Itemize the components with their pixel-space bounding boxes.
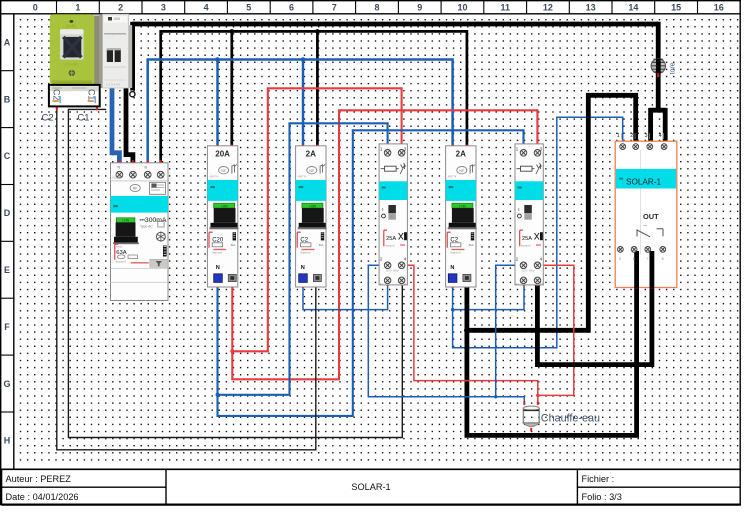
circuit breaker D1 20A bbox=[207, 146, 238, 287]
junction blue 20A branch bbox=[216, 393, 220, 397]
water heater chauffe-eau bbox=[523, 406, 539, 426]
svg-text:A1: A1 bbox=[516, 282, 520, 286]
wire red KM1 pin4 to chauffe-eau bbox=[402, 265, 538, 404]
relay contact symbol bbox=[637, 229, 663, 237]
svg-text:11: 11 bbox=[500, 3, 510, 13]
wire phase distribution rail bbox=[161, 31, 467, 163]
junction neutral/20A bbox=[215, 57, 220, 62]
wire thick phase drop through tore to SOLAR-1 inputs 3/4 bbox=[649, 22, 666, 147]
contactor KM2 25A bbox=[515, 144, 544, 286]
wire blue KM1 pin2 to chauffe-eau bbox=[368, 265, 524, 404]
junction phase/20A bbox=[230, 29, 235, 34]
svg-text:A2: A2 bbox=[404, 282, 408, 286]
svg-text:I: I bbox=[518, 207, 519, 212]
svg-text:legrand: legrand bbox=[300, 251, 310, 255]
svg-text:D: D bbox=[4, 208, 11, 218]
svg-text:Fichier :: Fichier : bbox=[582, 474, 615, 484]
svg-text:5: 5 bbox=[619, 257, 621, 261]
svg-text:25A: 25A bbox=[386, 236, 396, 242]
svg-text:14: 14 bbox=[628, 3, 638, 13]
main breaker DB bbox=[99, 14, 132, 88]
svg-text:2: 2 bbox=[118, 3, 123, 13]
wire thick blue neutral from meter bbox=[112, 81, 119, 164]
svg-text:406774: 406774 bbox=[209, 175, 218, 179]
svg-text:0: 0 bbox=[33, 3, 38, 13]
svg-text:7: 7 bbox=[647, 257, 649, 261]
svg-text:Chauffe-eau: Chauffe-eau bbox=[541, 413, 600, 425]
meter Linky bbox=[50, 14, 101, 84]
svg-text:6: 6 bbox=[289, 3, 294, 13]
svg-text:406774: 406774 bbox=[448, 175, 457, 179]
svg-text:10: 10 bbox=[457, 3, 467, 13]
circuit breaker D2 2A bbox=[296, 146, 327, 287]
junction phase/2A#1 bbox=[315, 29, 320, 34]
wire phase drop to CB 20A bbox=[230, 31, 233, 146]
svg-text:C2: C2 bbox=[42, 113, 54, 124]
svg-text:N: N bbox=[301, 265, 305, 271]
svg-text:I-ON: I-ON bbox=[459, 204, 466, 208]
svg-text:3: 3 bbox=[161, 3, 166, 13]
wire blue branch to contactor KM1 pin1 bbox=[218, 123, 388, 395]
svg-text:3: 3 bbox=[645, 133, 648, 139]
svg-text:G: G bbox=[3, 379, 10, 389]
svg-text:2A: 2A bbox=[456, 150, 466, 159]
svg-text:legrand: legrand bbox=[521, 244, 531, 248]
svg-text:6kA: 6kA bbox=[319, 243, 324, 247]
svg-text:8: 8 bbox=[374, 3, 379, 13]
svg-text:E: E bbox=[4, 265, 10, 275]
svg-text:16: 16 bbox=[714, 3, 724, 13]
junction blue 2A#2 branch bbox=[451, 308, 454, 311]
wire pilot wire 2A#1 to meter contact C2 bbox=[57, 106, 316, 449]
svg-text:lexic: lexic bbox=[117, 245, 123, 249]
current transformer tore bbox=[651, 59, 677, 75]
svg-text:B: B bbox=[4, 94, 11, 104]
svg-text:legrand: legrand bbox=[116, 259, 126, 263]
svg-text:6: 6 bbox=[633, 257, 635, 261]
wire red KM2 pin4 loop bbox=[537, 265, 573, 395]
svg-text:1: 1 bbox=[75, 3, 80, 13]
svg-text:I-ON: I-ON bbox=[309, 204, 316, 208]
pin labels 1 2 3 4 bbox=[617, 133, 662, 139]
svg-text:2: 2 bbox=[630, 133, 633, 139]
svg-text:F: F bbox=[4, 322, 10, 332]
SOLAR-1 router device U1 bbox=[615, 133, 677, 288]
svg-text:N: N bbox=[450, 265, 454, 271]
svg-text:SOLAR-1: SOLAR-1 bbox=[626, 177, 661, 186]
svg-text:C1: C1 bbox=[77, 113, 89, 124]
wire neutral drop to CB 2A #1 bbox=[302, 60, 305, 147]
terminal circle under main breaker bbox=[130, 92, 135, 97]
title block bbox=[1, 469, 740, 505]
wire red branch to contactor KM1 pin3 bbox=[232, 88, 401, 351]
wire neutral distribution rail bbox=[148, 60, 453, 164]
svg-text:I-ON: I-ON bbox=[122, 219, 129, 223]
svg-text:I: I bbox=[382, 207, 383, 212]
svg-text:1 2 3 4 5 6: 1 2 3 4 5 6 bbox=[106, 83, 121, 87]
svg-text:⎓300mA: ⎓300mA bbox=[140, 217, 167, 224]
svg-text:15: 15 bbox=[671, 3, 681, 13]
svg-text:tore: tore bbox=[670, 62, 677, 74]
svg-text:20A: 20A bbox=[215, 150, 230, 159]
svg-text:25A: 25A bbox=[522, 236, 532, 242]
svg-text:8: 8 bbox=[662, 257, 664, 261]
wire blue 2A#1 neutral to KM1 coil A1 bbox=[303, 281, 388, 310]
meter contact box C2/C1 bbox=[49, 85, 100, 107]
wire blue KM2 pin2 down bbox=[496, 265, 524, 397]
svg-text:legrand: legrand bbox=[212, 251, 222, 255]
svg-text:I-ON: I-ON bbox=[221, 204, 228, 208]
svg-text:4: 4 bbox=[204, 3, 209, 13]
svg-text:Date : 04/01/2026: Date : 04/01/2026 bbox=[6, 492, 79, 502]
svg-text:NF: NF bbox=[459, 169, 465, 173]
svg-text:6kA: 6kA bbox=[469, 243, 474, 247]
wire blue 20A neutral loop to contactor KM2 pin1 bbox=[218, 130, 524, 416]
svg-text:6kA: 6kA bbox=[231, 243, 236, 247]
svg-text:SOLAR-1: SOLAR-1 bbox=[351, 482, 390, 492]
svg-text:Type AC: Type AC bbox=[140, 225, 153, 229]
wire blue 2A#2 neutral to SOLAR-1 input 1 bbox=[453, 117, 623, 347]
wire phase drop to CB 2A #1 bbox=[316, 31, 319, 146]
svg-text:13: 13 bbox=[586, 3, 596, 13]
svg-text:1: 1 bbox=[617, 133, 620, 139]
wire blue branch to KM2 coil A1 bbox=[453, 281, 524, 310]
svg-text:NF: NF bbox=[309, 169, 315, 173]
wire C1 stub bbox=[96, 106, 98, 109]
svg-text:OUT: OUT bbox=[643, 212, 659, 221]
svg-text:H: H bbox=[4, 436, 11, 446]
junction blue chauffe-eau feed bbox=[494, 395, 497, 398]
junction thick black tee bbox=[464, 327, 470, 333]
wire thick black 2A#2 phase to SOLAR-1 OUT screw6 bbox=[467, 251, 637, 435]
wire OUT thick overlays inside box bbox=[634, 251, 639, 288]
wire red 20A output to contactor KM2 pin3 bbox=[232, 110, 537, 379]
svg-text:4: 4 bbox=[659, 133, 662, 139]
wire thick black branch to SOLAR-1 input 2 bbox=[467, 95, 636, 330]
wire neutral drop to CB 20A bbox=[216, 60, 219, 147]
svg-text:411645: 411645 bbox=[112, 176, 121, 180]
svg-text:A2: A2 bbox=[540, 282, 544, 286]
svg-text:5: 5 bbox=[246, 3, 251, 13]
contactor KM1 25A bbox=[379, 144, 408, 286]
terminal ticks bbox=[56, 74, 666, 432]
wire thick phase feed top run (breaker to tore) bbox=[133, 22, 659, 27]
circuit breaker D3 2A bbox=[446, 146, 477, 287]
svg-text:A1: A1 bbox=[380, 282, 384, 286]
svg-text:C: C bbox=[4, 151, 11, 161]
svg-text:legrand: legrand bbox=[450, 251, 460, 255]
RCD differential switch Q1 63A 300mA bbox=[111, 163, 169, 301]
junction red 20A branch bbox=[230, 349, 234, 353]
svg-text:0.0 kWh: 0.0 kWh bbox=[65, 62, 78, 66]
svg-text:7: 7 bbox=[332, 3, 337, 13]
svg-text:Folio : 3/3: Folio : 3/3 bbox=[582, 492, 622, 502]
svg-text:230V~ 50Hz: 230V~ 50Hz bbox=[386, 270, 400, 273]
svg-text:Linky: Linky bbox=[66, 23, 77, 28]
svg-text:Auteur : PEREZ: Auteur : PEREZ bbox=[6, 474, 72, 484]
svg-text:legrand: legrand bbox=[385, 244, 395, 248]
junction red chauffe-eau feed bbox=[536, 394, 539, 397]
svg-text:230V~ 50Hz: 230V~ 50Hz bbox=[522, 270, 536, 273]
svg-text:12: 12 bbox=[543, 3, 553, 13]
svg-text:2A: 2A bbox=[306, 150, 316, 159]
wire thick phase stub at main breaker output bbox=[130, 22, 135, 91]
svg-text:A: A bbox=[4, 37, 11, 47]
svg-text:406774: 406774 bbox=[298, 175, 307, 179]
svg-text:NF: NF bbox=[221, 169, 227, 173]
svg-text:N: N bbox=[216, 265, 220, 271]
junction neutral/2A#1 bbox=[301, 57, 306, 62]
svg-text:9: 9 bbox=[417, 3, 422, 13]
wire pilot wire meter contact C1 to KM1 coil A2 bbox=[68, 109, 402, 437]
wire thick black meter-to-RCD phase bbox=[126, 84, 133, 164]
svg-text:NF: NF bbox=[133, 187, 139, 191]
wire thick black KM2 coil A2 to SOLAR-1 OUT screw7 bbox=[537, 251, 652, 365]
